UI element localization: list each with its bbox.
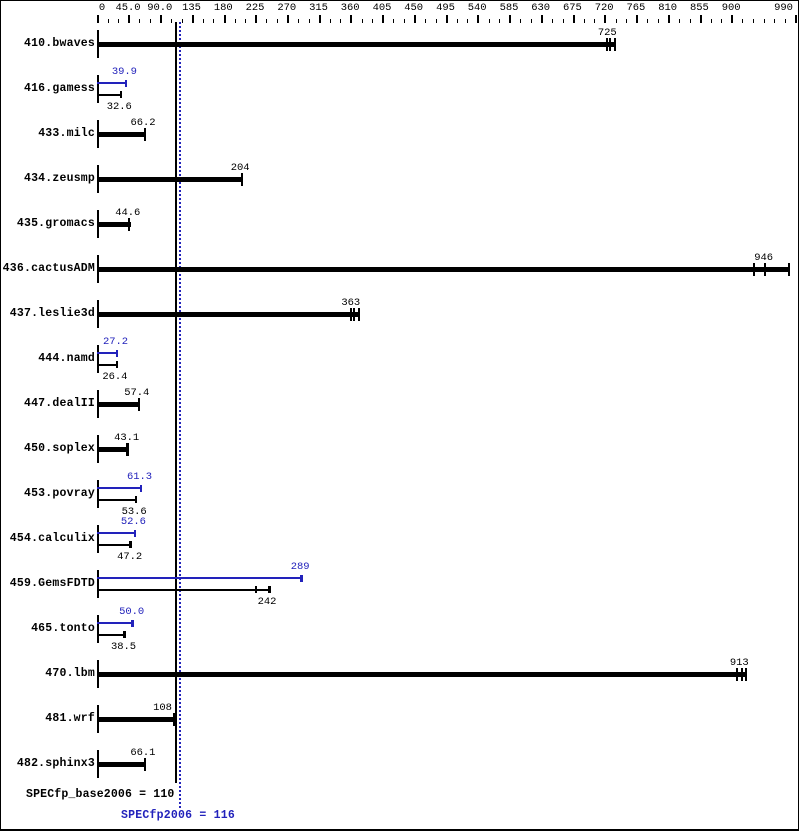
row 453.povray bbox=[24, 488, 95, 500]
row 444.namd bbox=[38, 353, 95, 365]
row 481.wrf bbox=[45, 713, 95, 725]
base reference line (110) bbox=[175, 22, 177, 783]
x axis labels bbox=[99, 3, 105, 13]
row 454.calculix bbox=[10, 533, 95, 545]
peak score text bbox=[121, 810, 235, 822]
row 416.gamess bbox=[24, 83, 95, 95]
row 459.GemsFDTD bbox=[10, 578, 95, 590]
peak reference line (116, dotted) bbox=[179, 22, 181, 808]
row 470.lbm bbox=[45, 668, 95, 680]
row 434.zeusmp bbox=[24, 173, 95, 185]
row 410.bwaves bbox=[24, 38, 95, 50]
x axis ticks bbox=[97, 15, 99, 23]
row 450.soplex bbox=[24, 443, 95, 455]
row 435.gromacs bbox=[17, 218, 95, 230]
row 436.cactusADM bbox=[3, 263, 95, 275]
base score text bbox=[26, 789, 175, 801]
row 437.leslie3d bbox=[10, 308, 95, 320]
row 482.sphinx3 bbox=[17, 758, 95, 770]
row 465.tonto bbox=[31, 623, 95, 635]
row 447.dealII bbox=[24, 398, 95, 410]
row 433.milc bbox=[38, 128, 95, 140]
